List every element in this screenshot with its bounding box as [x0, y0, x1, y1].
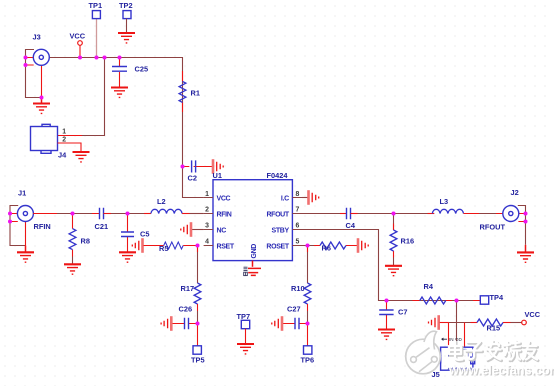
svg-text:J3: J3	[33, 33, 41, 42]
resistor R1	[179, 71, 200, 112]
svg-text:R10: R10	[291, 284, 305, 293]
svg-text:1: 1	[205, 191, 209, 198]
svg-text:2: 2	[205, 207, 209, 214]
svg-text:6: 6	[296, 223, 300, 230]
wire pin6 STBY line	[302, 230, 480, 301]
capacitor C26	[172, 305, 197, 330]
svg-text:I.C: I.C	[281, 195, 289, 202]
svg-text:R1: R1	[191, 89, 200, 98]
svg-text:R4: R4	[424, 282, 434, 291]
resistor R8	[69, 214, 90, 265]
svg-text:www.elecfans.com: www.elecfans.com	[448, 364, 554, 378]
wire pin4 to R17	[197, 246, 199, 284]
svg-text:R16: R16	[401, 237, 415, 246]
power VCC top	[70, 32, 86, 58]
svg-text:R17: R17	[181, 284, 195, 293]
wire gnd to R15 lead	[449, 322, 477, 324]
svg-text:C5: C5	[140, 230, 149, 239]
svg-text:L2: L2	[157, 197, 166, 206]
capacitor C25	[112, 58, 148, 88]
svg-text:R5: R5	[159, 244, 168, 253]
svg-text:L3: L3	[440, 197, 449, 206]
wire J5 pin drops	[449, 323, 465, 348]
svg-text:VCC: VCC	[217, 195, 231, 202]
connector J2	[480, 188, 526, 245]
svg-text:TP5: TP5	[191, 356, 205, 365]
capacitor C7	[379, 301, 407, 330]
ground R8	[64, 264, 81, 274]
svg-text:R6: R6	[322, 244, 331, 253]
svg-text:C21: C21	[95, 222, 109, 231]
inductor L3	[432, 197, 503, 214]
svg-text:RFOUT: RFOUT	[266, 211, 289, 218]
svg-text:2: 2	[62, 136, 66, 143]
svg-text:NC: NC	[217, 227, 227, 234]
svg-text:VCC: VCC	[525, 310, 541, 319]
svg-text:C4: C4	[346, 221, 356, 230]
connector J1	[10, 189, 51, 246]
wire TP1 drop	[96, 19, 98, 58]
svg-text:TP2: TP2	[119, 1, 133, 10]
svg-text:GND: GND	[251, 244, 258, 259]
testpoint TP2	[119, 1, 133, 33]
IC U1	[204, 171, 302, 267]
capacitor C21	[95, 208, 112, 231]
ground J2	[517, 245, 534, 262]
svg-text:R15: R15	[487, 324, 501, 333]
svg-text:TP1: TP1	[89, 1, 103, 10]
ground C2	[213, 159, 223, 174]
svg-text:J4: J4	[58, 150, 67, 159]
capacitor C2	[183, 160, 213, 182]
wire pin5 to R10	[307, 246, 309, 284]
ground R16	[385, 266, 402, 276]
watermark logo	[406, 331, 441, 374]
resistor R15	[477, 319, 522, 333]
svg-text:1: 1	[62, 128, 66, 135]
capacitor C4	[346, 208, 358, 230]
svg-text:C7: C7	[398, 308, 407, 317]
ground C27	[272, 316, 282, 331]
svg-text:VCC: VCC	[70, 32, 86, 41]
testpoint TP4	[480, 293, 504, 304]
ground TP2	[118, 33, 135, 43]
label J5	[432, 370, 440, 379]
ground J1	[17, 246, 34, 263]
testpoint TP1	[89, 1, 103, 19]
svg-text:C26: C26	[179, 305, 193, 314]
svg-text:U1: U1	[213, 171, 222, 180]
ground pin8	[302, 190, 319, 205]
svg-text:RFIN: RFIN	[217, 211, 232, 218]
connector J5 box	[435, 347, 475, 370]
svg-text:RFOUT: RFOUT	[480, 223, 506, 232]
svg-text:C25: C25	[135, 65, 149, 74]
wire bus to J4 pin1	[58, 58, 105, 136]
resistor R5	[132, 238, 197, 253]
svg-text:RSET: RSET	[217, 243, 235, 250]
svg-text:4: 4	[205, 239, 209, 246]
connector J4	[31, 124, 82, 159]
svg-text:C2: C2	[188, 174, 197, 183]
wire top bus	[49, 58, 204, 198]
svg-text:C27: C27	[287, 305, 301, 314]
svg-text:8: 8	[296, 191, 300, 198]
ground TP7	[237, 344, 254, 354]
ground C5	[119, 252, 136, 262]
ground C7	[378, 330, 395, 340]
svg-text:5: 5	[296, 239, 300, 246]
resistor R6	[302, 242, 357, 253]
resistor R16	[390, 214, 414, 266]
ground C25	[111, 88, 128, 98]
svg-text:J2: J2	[511, 188, 519, 197]
testpoint TP5	[191, 324, 205, 365]
svg-text:TP4: TP4	[490, 293, 504, 302]
svg-text:7: 7	[296, 207, 300, 214]
wire C4 to L3	[358, 213, 435, 215]
resistor R10	[291, 283, 311, 324]
wire C21 to L2	[111, 213, 151, 215]
watermark url	[448, 364, 554, 379]
capacitor C5	[121, 214, 149, 253]
ground R6	[358, 238, 368, 253]
wire TP4 junction to J5	[456, 301, 458, 348]
svg-text:R8: R8	[81, 237, 90, 246]
svg-text:3: 3	[205, 223, 209, 230]
testpoint TP7	[237, 312, 251, 344]
ground C26	[161, 316, 171, 331]
resistor R17	[181, 283, 201, 324]
svg-text:RFIN: RFIN	[34, 222, 51, 231]
inductor L2	[151, 197, 204, 214]
svg-text:ROSET: ROSET	[266, 243, 289, 250]
capacitor C27	[283, 305, 308, 330]
ground pin3	[181, 222, 204, 237]
svg-text:F0424: F0424	[267, 171, 289, 180]
ground J4 pin2	[73, 152, 90, 162]
connector J3	[26, 33, 50, 98]
svg-text:J1: J1	[18, 189, 26, 198]
ground J3	[33, 98, 50, 114]
resistor R4	[420, 282, 446, 304]
ground J5 left	[429, 315, 449, 330]
watermark text	[449, 341, 538, 361]
svg-text:J5: J5	[432, 370, 440, 379]
ground U1 bottom	[244, 267, 262, 275]
power VCC right	[522, 310, 541, 325]
wire RF input line	[33, 213, 99, 215]
label J5 pin marks	[442, 337, 463, 342]
testpoint TP6	[301, 324, 315, 365]
svg-text:STBY: STBY	[272, 227, 290, 234]
svg-text:TP6: TP6	[301, 356, 315, 365]
wire pin7 RFOUT line	[302, 213, 347, 215]
